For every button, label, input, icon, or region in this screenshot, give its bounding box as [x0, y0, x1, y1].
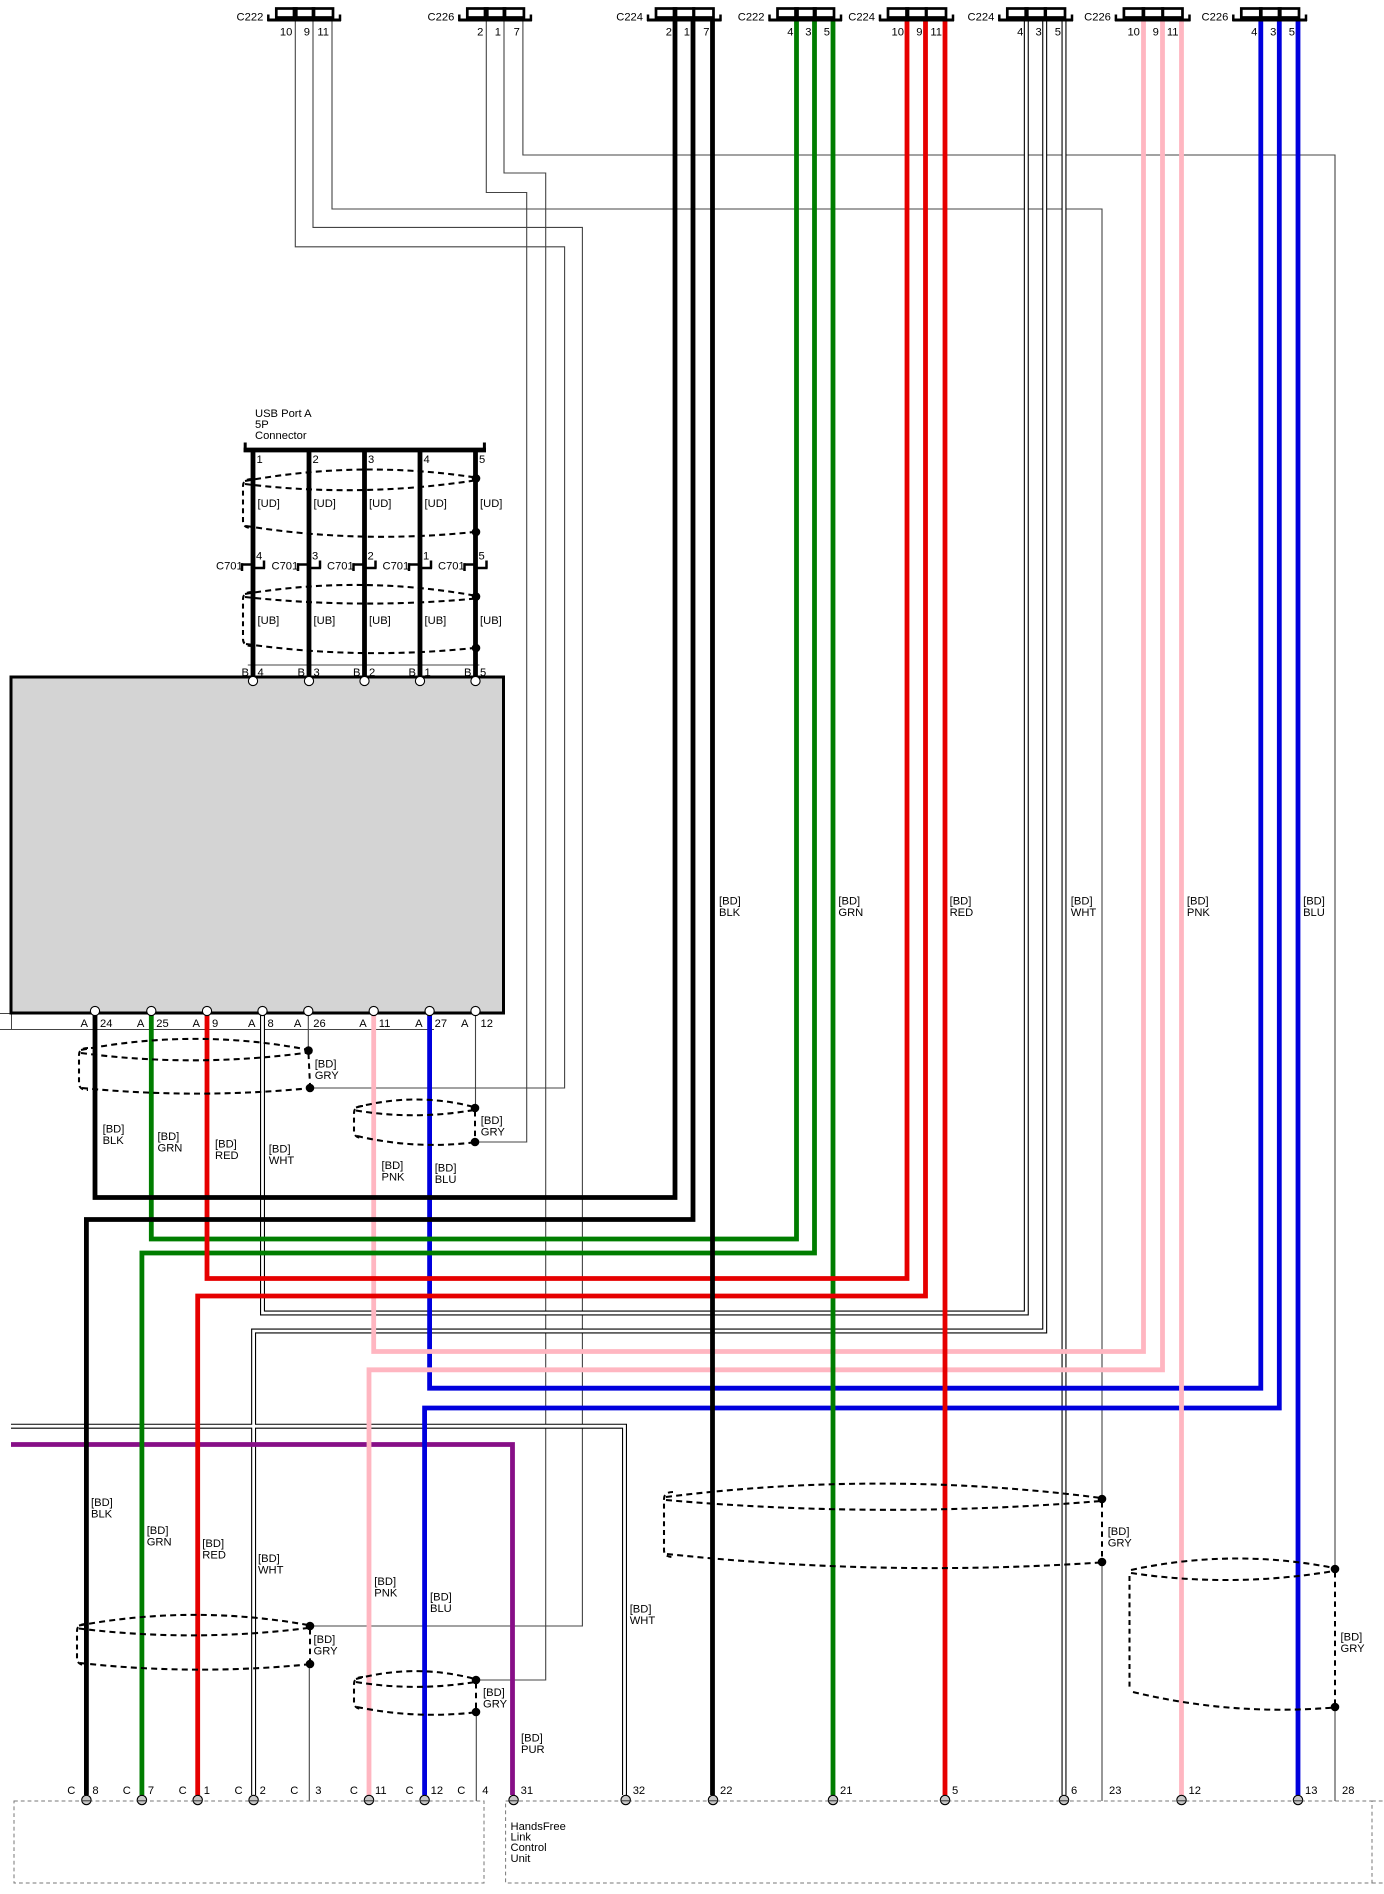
svg-text:[UB]: [UB] — [314, 615, 336, 627]
svg-text:RED: RED — [202, 1550, 226, 1562]
svg-text:11: 11 — [379, 1018, 391, 1030]
svg-text:[BD]: [BD] — [483, 1687, 505, 1699]
svg-text:5: 5 — [479, 551, 485, 563]
svg-text:B: B — [464, 667, 471, 679]
svg-text:4: 4 — [1251, 27, 1257, 39]
svg-text:11: 11 — [375, 1785, 387, 1797]
svg-text:7: 7 — [514, 27, 520, 39]
svg-text:32: 32 — [633, 1785, 645, 1797]
svg-text:[BD]: [BD] — [1341, 1632, 1363, 1644]
svg-text:3: 3 — [1035, 27, 1041, 39]
svg-text:[BD]: [BD] — [630, 1604, 652, 1616]
svg-text:[BD]: [BD] — [147, 1525, 169, 1537]
svg-text:[BD]: [BD] — [430, 1592, 452, 1604]
svg-text:[BD]: [BD] — [382, 1160, 404, 1172]
svg-text:[BD]: [BD] — [269, 1144, 291, 1156]
svg-text:2: 2 — [313, 454, 319, 466]
svg-text:[UD]: [UD] — [425, 498, 447, 510]
svg-text:[BD]: [BD] — [91, 1497, 113, 1509]
svg-text:9: 9 — [1153, 27, 1159, 39]
svg-text:9: 9 — [304, 27, 310, 39]
svg-text:5: 5 — [824, 27, 830, 39]
svg-text:WHT: WHT — [630, 1615, 656, 1627]
svg-text:2: 2 — [666, 27, 672, 39]
svg-text:[BD]: [BD] — [258, 1553, 280, 1565]
svg-text:[UD]: [UD] — [369, 498, 391, 510]
svg-text:GRY: GRY — [1341, 1643, 1366, 1655]
svg-text:3: 3 — [368, 454, 374, 466]
svg-text:BLU: BLU — [1303, 907, 1325, 919]
svg-text:10: 10 — [1127, 27, 1139, 39]
svg-text:[BD]: [BD] — [202, 1538, 224, 1550]
svg-text:GRN: GRN — [838, 907, 863, 919]
svg-text:1: 1 — [423, 551, 429, 563]
svg-text:[UD]: [UD] — [480, 498, 502, 510]
svg-text:C701: C701 — [272, 561, 299, 573]
svg-text:5: 5 — [480, 667, 486, 679]
svg-text:[BD]: [BD] — [719, 896, 741, 908]
svg-text:A: A — [461, 1018, 469, 1030]
svg-text:[BD]: [BD] — [1071, 896, 1093, 908]
svg-text:C701: C701 — [216, 561, 243, 573]
svg-text:C: C — [290, 1785, 298, 1797]
svg-text:5: 5 — [1055, 27, 1061, 39]
svg-text:9: 9 — [916, 27, 922, 39]
svg-text:27: 27 — [435, 1018, 447, 1030]
svg-text:WHT: WHT — [269, 1155, 295, 1167]
svg-text:[BD]: [BD] — [521, 1733, 543, 1745]
svg-text:[UD]: [UD] — [314, 498, 336, 510]
svg-text:[BD]: [BD] — [1187, 896, 1209, 908]
svg-text:[BD]: [BD] — [314, 1634, 336, 1646]
svg-text:[UB]: [UB] — [369, 615, 391, 627]
svg-text:C226: C226 — [428, 12, 455, 24]
svg-text:C701: C701 — [383, 561, 410, 573]
svg-text:RED: RED — [215, 1150, 239, 1162]
svg-text:B: B — [409, 667, 416, 679]
svg-text:C226: C226 — [1202, 12, 1229, 24]
svg-text:7: 7 — [703, 27, 709, 39]
svg-text:2: 2 — [477, 27, 483, 39]
svg-text:4: 4 — [1017, 27, 1023, 39]
svg-text:22: 22 — [720, 1785, 732, 1797]
svg-text:WHT: WHT — [258, 1565, 284, 1577]
svg-text:3: 3 — [315, 1785, 321, 1797]
svg-text:A: A — [248, 1018, 256, 1030]
svg-text:C222: C222 — [237, 12, 264, 24]
svg-text:C226: C226 — [1084, 12, 1111, 24]
svg-text:WHT: WHT — [1071, 907, 1097, 919]
svg-text:[UD]: [UD] — [258, 498, 280, 510]
svg-text:[BD]: [BD] — [215, 1139, 237, 1151]
svg-text:[BD]: [BD] — [315, 1059, 337, 1071]
svg-text:C222: C222 — [738, 12, 765, 24]
svg-text:12: 12 — [1189, 1785, 1201, 1797]
svg-text:C: C — [235, 1785, 243, 1797]
svg-text:10: 10 — [280, 27, 292, 39]
svg-text:[UB]: [UB] — [425, 615, 447, 627]
svg-text:4: 4 — [258, 667, 264, 679]
svg-text:C224: C224 — [616, 12, 643, 24]
svg-text:11: 11 — [317, 27, 329, 39]
svg-text:23: 23 — [1109, 1785, 1121, 1797]
svg-text:10: 10 — [892, 27, 904, 39]
svg-text:PNK: PNK — [382, 1172, 406, 1184]
svg-text:1: 1 — [204, 1785, 210, 1797]
svg-text:[UB]: [UB] — [480, 615, 502, 627]
svg-text:C: C — [67, 1785, 75, 1797]
svg-text:21: 21 — [840, 1785, 852, 1797]
svg-text:C701: C701 — [438, 561, 465, 573]
svg-text:GRY: GRY — [481, 1127, 506, 1139]
svg-text:[BD]: [BD] — [435, 1163, 457, 1175]
svg-text:6: 6 — [1071, 1785, 1077, 1797]
svg-text:A: A — [294, 1018, 302, 1030]
svg-text:1: 1 — [425, 667, 431, 679]
svg-text:[BD]: [BD] — [1108, 1526, 1130, 1538]
svg-text:28: 28 — [1342, 1785, 1354, 1797]
svg-text:2: 2 — [369, 667, 375, 679]
svg-text:A: A — [193, 1018, 201, 1030]
svg-text:GRN: GRN — [147, 1537, 172, 1549]
svg-text:1: 1 — [684, 27, 690, 39]
svg-text:C224: C224 — [848, 12, 875, 24]
svg-text:4: 4 — [787, 27, 793, 39]
svg-text:Unit: Unit — [511, 1853, 532, 1865]
svg-text:PNK: PNK — [374, 1588, 398, 1600]
svg-text:11: 11 — [930, 27, 942, 39]
svg-text:4: 4 — [424, 454, 430, 466]
svg-text:[BD]: [BD] — [1303, 896, 1325, 908]
svg-text:5: 5 — [479, 454, 485, 466]
svg-text:[UB]: [UB] — [258, 615, 280, 627]
svg-text:2: 2 — [260, 1785, 266, 1797]
svg-text:13: 13 — [1305, 1785, 1317, 1797]
svg-text:2: 2 — [368, 551, 374, 563]
svg-text:1: 1 — [495, 27, 501, 39]
svg-text:3: 3 — [314, 667, 320, 679]
svg-text:C701: C701 — [327, 561, 354, 573]
svg-text:5: 5 — [952, 1785, 958, 1797]
svg-text:GRY: GRY — [1108, 1538, 1133, 1550]
svg-text:[BD]: [BD] — [103, 1124, 125, 1136]
svg-text:BLK: BLK — [91, 1509, 113, 1521]
svg-text:BLK: BLK — [719, 907, 741, 919]
svg-text:[BD]: [BD] — [374, 1576, 396, 1588]
svg-text:7: 7 — [148, 1785, 154, 1797]
svg-text:C: C — [457, 1785, 465, 1797]
svg-text:12: 12 — [431, 1785, 443, 1797]
svg-text:C224: C224 — [968, 12, 995, 24]
svg-text:A: A — [415, 1018, 423, 1030]
svg-text:PUR: PUR — [521, 1744, 545, 1756]
svg-text:BLU: BLU — [430, 1603, 452, 1615]
svg-text:25: 25 — [156, 1018, 168, 1030]
svg-text:C: C — [123, 1785, 131, 1797]
svg-text:9: 9 — [212, 1018, 218, 1030]
svg-text:31: 31 — [521, 1785, 533, 1797]
svg-text:12: 12 — [481, 1018, 493, 1030]
svg-text:GRN: GRN — [158, 1143, 183, 1155]
svg-text:8: 8 — [92, 1785, 98, 1797]
svg-text:A: A — [81, 1018, 89, 1030]
svg-text:C: C — [350, 1785, 358, 1797]
svg-text:24: 24 — [100, 1018, 112, 1030]
svg-text:Connector: Connector — [255, 430, 307, 442]
svg-text:B: B — [353, 667, 360, 679]
svg-text:5: 5 — [1289, 27, 1295, 39]
svg-text:A: A — [359, 1018, 367, 1030]
svg-text:3: 3 — [312, 551, 318, 563]
svg-text:GRY: GRY — [314, 1646, 339, 1658]
svg-text:8: 8 — [268, 1018, 274, 1030]
svg-text:C: C — [179, 1785, 187, 1797]
svg-text:[BD]: [BD] — [838, 896, 860, 908]
svg-text:[BD]: [BD] — [950, 896, 972, 908]
svg-text:1: 1 — [257, 454, 263, 466]
svg-text:B: B — [298, 667, 305, 679]
svg-text:C: C — [406, 1785, 414, 1797]
svg-text:4: 4 — [256, 551, 262, 563]
svg-text:11: 11 — [1167, 27, 1179, 39]
svg-text:GRY: GRY — [483, 1699, 508, 1711]
svg-text:3: 3 — [1270, 27, 1276, 39]
svg-text:BLU: BLU — [435, 1174, 457, 1186]
svg-text:4: 4 — [482, 1785, 488, 1797]
svg-text:[BD]: [BD] — [158, 1131, 180, 1143]
svg-text:PNK: PNK — [1187, 907, 1211, 919]
svg-text:[BD]: [BD] — [481, 1115, 503, 1127]
svg-text:A: A — [137, 1018, 145, 1030]
svg-text:GRY: GRY — [315, 1070, 340, 1082]
svg-text:26: 26 — [313, 1018, 325, 1030]
svg-text:RED: RED — [950, 907, 974, 919]
svg-text:B: B — [242, 667, 249, 679]
svg-text:BLK: BLK — [103, 1135, 125, 1147]
svg-text:3: 3 — [805, 27, 811, 39]
